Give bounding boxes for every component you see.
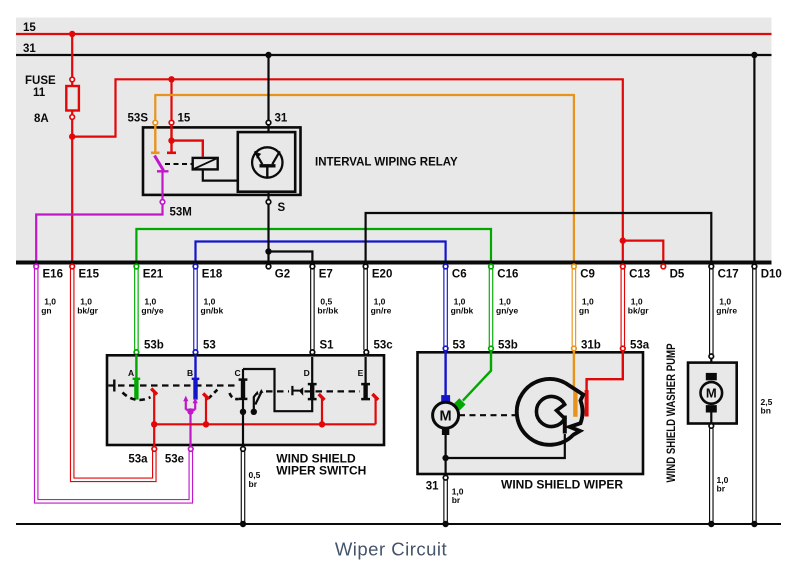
svg-text:B: B [187,368,193,378]
svg-text:53b: 53b [144,339,164,351]
svg-text:E18: E18 [202,269,223,281]
svg-text:11: 11 [33,87,46,99]
svg-text:D5: D5 [670,269,685,281]
svg-text:WIND SHIELD WASHER PUMP: WIND SHIELD WASHER PUMP [666,343,678,482]
svg-text:C6: C6 [452,269,467,281]
svg-text:S: S [278,202,286,214]
svg-text:WIND SHIELD WIPER: WIND SHIELD WIPER [501,478,623,492]
svg-text:gn/bk: gn/bk [451,306,474,316]
svg-text:53: 53 [453,339,466,351]
svg-text:D: D [304,368,310,378]
svg-text:E20: E20 [372,269,392,281]
svg-text:bk/gr: bk/gr [77,306,98,316]
svg-text:53b: 53b [498,339,518,351]
svg-text:E7: E7 [319,269,333,281]
svg-text:E15: E15 [79,269,100,281]
svg-text:S1: S1 [320,339,335,351]
svg-text:gn/re: gn/re [716,306,737,316]
svg-text:31: 31 [275,113,288,125]
svg-text:31: 31 [23,43,36,55]
svg-text:br/bk: br/bk [317,306,338,316]
svg-text:53S: 53S [128,113,149,125]
svg-text:15: 15 [178,113,191,125]
svg-text:15: 15 [23,22,36,34]
svg-text:br: br [717,484,726,494]
svg-text:G2: G2 [275,269,290,281]
svg-text:M: M [706,386,717,401]
svg-text:53c: 53c [374,339,394,351]
svg-text:bn: bn [761,406,771,416]
svg-text:gn/ye: gn/ye [496,306,518,316]
svg-text:31b: 31b [581,339,601,351]
svg-text:gn/re: gn/re [371,306,392,316]
svg-text:WIPER SWITCH: WIPER SWITCH [276,463,366,477]
svg-text:gn/ye: gn/ye [141,306,163,316]
svg-text:gn/bk: gn/bk [201,306,224,316]
svg-text:E21: E21 [143,269,164,281]
svg-text:53M: 53M [170,207,192,219]
svg-text:gn: gn [41,306,51,316]
svg-text:M: M [440,409,452,425]
svg-text:C9: C9 [580,269,595,281]
svg-text:C16: C16 [497,269,518,281]
svg-text:gn: gn [579,306,589,316]
svg-text:53a: 53a [630,339,650,351]
svg-text:31: 31 [426,481,439,493]
svg-text:FUSE: FUSE [25,75,56,87]
svg-text:53e: 53e [165,454,184,466]
svg-text:E16: E16 [43,269,63,281]
svg-text:C17: C17 [718,269,739,281]
svg-text:C: C [234,368,240,378]
svg-text:bk/gr: bk/gr [628,306,649,316]
svg-text:E: E [358,368,364,378]
svg-text:INTERVAL WIPING RELAY: INTERVAL WIPING RELAY [315,157,458,169]
svg-text:Wiper Circuit: Wiper Circuit [335,539,447,560]
svg-text:D10: D10 [761,269,782,281]
svg-text:53: 53 [203,339,216,351]
svg-text:53a: 53a [128,454,148,466]
svg-text:C13: C13 [629,269,650,281]
svg-text:A: A [128,368,134,378]
svg-text:8A: 8A [34,113,49,125]
svg-text:br: br [249,479,258,489]
svg-text:br: br [452,495,461,505]
